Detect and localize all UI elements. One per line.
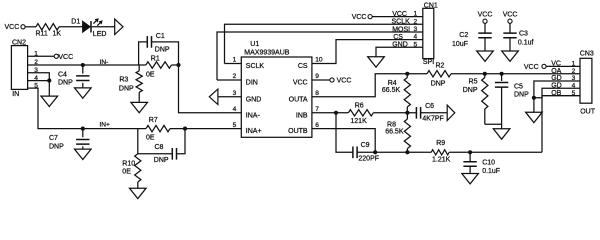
ground (R10) — [130, 188, 147, 198]
svg-text:4: 4 — [233, 106, 237, 113]
svg-text:C9: C9 — [361, 142, 370, 149]
svg-text:INA+: INA+ — [246, 128, 262, 135]
wire CN1 pin1 VCC — [372, 16, 423, 18]
wire — [373, 112, 416, 114]
svg-text:LED: LED — [93, 31, 107, 38]
svg-text:0.1uF: 0.1uF — [482, 168, 500, 175]
net SCLK — [225, 24, 423, 63]
svg-text:2: 2 — [572, 68, 576, 75]
svg-text:OUTA: OUTA — [289, 96, 308, 103]
node INB junction — [334, 111, 338, 115]
svg-text:R5: R5 — [469, 79, 478, 86]
wire U1 pin9 VCC — [312, 79, 330, 81]
svg-text:OUT: OUT — [580, 109, 596, 116]
svg-text:8: 8 — [315, 90, 319, 97]
wire — [25, 26, 36, 28]
svg-text:OA: OA — [551, 68, 561, 75]
wire U1 pin6 OUTB — [312, 129, 375, 153]
svg-text:1.21K: 1.21K — [432, 156, 451, 163]
svg-text:0.1uf: 0.1uf — [518, 39, 534, 46]
svg-text:INB: INB — [296, 112, 308, 119]
node IN+ / C7 junction — [81, 127, 85, 131]
svg-text:7: 7 — [315, 106, 319, 113]
wire INB to C9 — [336, 113, 353, 153]
wire OB riser — [542, 96, 580, 153]
wire — [59, 26, 83, 28]
svg-text:GND: GND — [246, 96, 262, 103]
svg-text:VCC: VCC — [293, 80, 308, 87]
ground (CN3 GD) — [526, 112, 543, 122]
node CN2 pin3/pin4 — [47, 79, 51, 83]
ground (CN1) — [368, 57, 385, 67]
svg-text:10uF: 10uF — [452, 41, 468, 48]
svg-text:0E: 0E — [146, 135, 155, 142]
wire — [92, 26, 115, 28]
ground (R3) — [131, 102, 148, 112]
svg-text:U1: U1 — [250, 41, 259, 48]
wire CN2 pin2 / net IN- — [28, 64, 146, 66]
wire CN1 pin5 GND — [376, 47, 423, 56]
wire R5 bottom — [485, 123, 502, 125]
svg-text:VCC: VCC — [524, 64, 539, 71]
svg-text:C10: C10 — [482, 160, 495, 167]
wire CN3 pin3 GD — [534, 81, 580, 98]
svg-text:9: 9 — [315, 73, 319, 80]
svg-text:3: 3 — [414, 26, 418, 33]
ground (R5/C5) — [493, 129, 510, 139]
net OUTA / OA — [312, 74, 427, 97]
svg-text:R8: R8 — [387, 121, 396, 128]
wire CN2 pin1 to VCC — [28, 55, 55, 57]
svg-text:SCLK: SCLK — [246, 63, 265, 70]
svg-text:2: 2 — [414, 18, 418, 25]
svg-text:C1: C1 — [156, 33, 165, 40]
wire CN2 pin4 — [28, 80, 50, 82]
svg-text:VCC: VCC — [392, 11, 407, 18]
net INB — [312, 112, 348, 114]
svg-text:R7: R7 — [149, 117, 158, 124]
svg-text:DIN: DIN — [246, 80, 258, 87]
svg-text:6: 6 — [315, 122, 319, 129]
svg-text:DNP: DNP — [155, 46, 170, 53]
svg-text:R11: R11 — [36, 30, 48, 37]
node J2 (R4/R6/R8/C6) — [405, 111, 409, 115]
svg-text:220PF: 220PF — [358, 155, 379, 162]
wire — [170, 128, 241, 130]
svg-text:0E: 0E — [122, 168, 131, 175]
svg-text:3: 3 — [233, 90, 237, 97]
svg-text:OUTB: OUTB — [288, 128, 308, 135]
wire CN2 pin3 — [28, 73, 50, 81]
svg-text:C4: C4 — [58, 71, 67, 78]
wire — [449, 151, 542, 153]
svg-text:MAX9939AUB: MAX9939AUB — [244, 50, 289, 57]
node OUTB/vertical — [373, 150, 377, 154]
svg-text:C5: C5 — [514, 84, 523, 91]
svg-text:IN-: IN- — [100, 59, 109, 66]
svg-text:DNP: DNP — [431, 80, 446, 87]
svg-text:DNP: DNP — [514, 91, 529, 98]
svg-text:5: 5 — [233, 122, 237, 129]
net MOSI — [217, 32, 423, 80]
wire — [421, 112, 448, 114]
wire CN3 pin1 — [546, 65, 580, 67]
off-page arrow (C6) — [447, 105, 455, 121]
svg-text:R3: R3 — [119, 77, 128, 84]
ground (C2) — [477, 51, 494, 61]
node IN- / C4 junction — [81, 63, 85, 67]
svg-text:1: 1 — [233, 57, 237, 64]
wire CN3 pin4 GD — [534, 88, 580, 98]
svg-text:VCC: VCC — [503, 12, 518, 19]
svg-text:DNP: DNP — [154, 157, 169, 164]
svg-text:0E: 0E — [146, 72, 155, 79]
svg-text:IN: IN — [12, 91, 19, 98]
svg-text:R2: R2 — [436, 62, 445, 69]
wire — [83, 128, 146, 130]
off-page arrow (LED) — [115, 19, 123, 35]
wire OA to CN3 — [451, 73, 580, 75]
svg-text:C6: C6 — [425, 103, 434, 110]
svg-text:R1: R1 — [151, 55, 160, 62]
svg-text:DNP: DNP — [49, 144, 64, 151]
svg-text:VCC: VCC — [337, 78, 352, 85]
wire CN3 pin5 OB — [542, 95, 580, 97]
net OUTB bottom line — [357, 151, 431, 153]
node R5 top — [483, 72, 487, 76]
svg-text:C7: C7 — [49, 135, 58, 142]
svg-text:SCLK: SCLK — [392, 19, 411, 26]
wire U1 pin2 stub — [217, 79, 241, 81]
svg-text:4K7PF: 4K7PF — [422, 116, 443, 123]
svg-text:121K: 121K — [350, 118, 367, 125]
svg-text:R9: R9 — [436, 140, 445, 147]
svg-text:2: 2 — [233, 73, 237, 80]
wire to U1 pin 4 INA- — [179, 65, 242, 113]
svg-text:4: 4 — [414, 34, 418, 41]
svg-text:INA-: INA- — [246, 112, 261, 119]
svg-text:DNP: DNP — [463, 87, 478, 94]
node R8 bottom — [405, 150, 409, 154]
node R1/C1 — [176, 63, 180, 67]
ground (CN2) — [41, 96, 58, 106]
svg-text:66.5K: 66.5K — [385, 129, 404, 136]
ground (C7) — [75, 149, 92, 159]
svg-text:DNP: DNP — [58, 79, 73, 86]
resistor R11 — [36, 24, 59, 30]
svg-text:1K: 1K — [53, 30, 62, 37]
svg-text:MOSI: MOSI — [392, 26, 410, 33]
wire CN2 pin5 / net IN+ — [28, 88, 83, 129]
node R7/C8 — [183, 127, 187, 131]
net CS — [312, 40, 423, 64]
power flag VCC (U1 pin9) — [330, 78, 334, 82]
svg-text:VCC: VCC — [478, 12, 493, 19]
node C10 junction — [468, 150, 472, 154]
svg-text:VCC: VCC — [5, 24, 20, 31]
svg-text:5: 5 — [414, 41, 418, 48]
svg-text:VCC: VCC — [352, 14, 367, 21]
svg-text:CS: CS — [298, 63, 308, 70]
svg-text:DNP: DNP — [119, 85, 134, 92]
svg-text:C2: C2 — [459, 32, 468, 39]
svg-text:C8: C8 — [155, 144, 164, 151]
svg-text:1: 1 — [414, 11, 418, 18]
ground (C4) — [75, 88, 92, 98]
svg-text:IN+: IN+ — [99, 122, 110, 129]
wire U1 pin3 stub — [218, 96, 241, 98]
svg-text:CN3: CN3 — [580, 50, 594, 57]
ground (C10) — [462, 174, 479, 184]
svg-text:C3: C3 — [519, 30, 528, 37]
power flag VCC (CN2 pin1) — [54, 54, 58, 58]
node GD junction — [532, 96, 536, 100]
svg-text:R6: R6 — [355, 103, 364, 110]
wire U1 pin1 stub — [225, 63, 242, 65]
svg-text:SPI: SPI — [423, 59, 434, 66]
svg-text:66.5K: 66.5K — [382, 87, 401, 94]
svg-text:VCC: VCC — [58, 54, 73, 61]
svg-text:10: 10 — [315, 57, 323, 64]
svg-text:R10: R10 — [122, 161, 135, 168]
svg-text:D1: D1 — [71, 18, 80, 25]
node C5 top — [500, 72, 504, 76]
off-page arrow GND (U1 pin3) — [209, 89, 218, 105]
svg-text:CS: CS — [393, 34, 403, 41]
wire to ground — [48, 81, 50, 96]
ground (C3) — [502, 51, 519, 61]
wire — [172, 64, 179, 66]
node J1 (OUTA/R4/R2) — [405, 72, 409, 76]
wire to ground — [533, 98, 535, 112]
